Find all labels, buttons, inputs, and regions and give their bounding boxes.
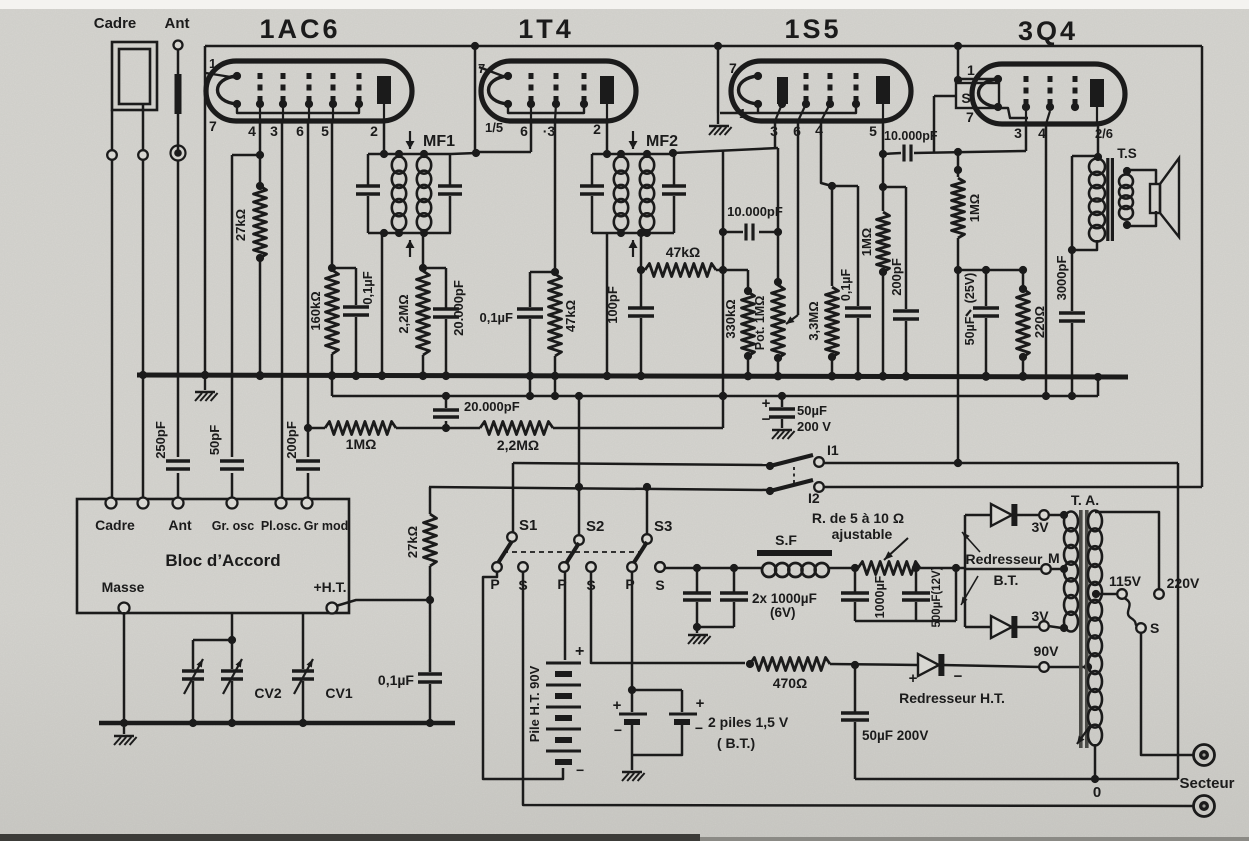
svg-text:Redresseur: Redresseur bbox=[965, 551, 1043, 567]
svg-text:7: 7 bbox=[966, 109, 974, 125]
svg-text:0,1µF: 0,1µF bbox=[479, 310, 513, 325]
svg-text:+H.T.: +H.T. bbox=[313, 579, 346, 595]
svg-text:S: S bbox=[1150, 620, 1159, 636]
svg-text:250pF: 250pF bbox=[153, 421, 168, 459]
svg-text:5: 5 bbox=[869, 123, 877, 139]
svg-text:50µF: 50µF bbox=[963, 316, 977, 345]
svg-text:+: + bbox=[762, 395, 771, 412]
svg-text:47kΩ: 47kΩ bbox=[563, 300, 578, 332]
svg-text:S: S bbox=[961, 90, 970, 106]
svg-text:200pF: 200pF bbox=[284, 421, 299, 459]
svg-text:0,1µF: 0,1µF bbox=[839, 269, 853, 302]
svg-text:+: + bbox=[909, 670, 918, 687]
svg-text:2: 2 bbox=[593, 121, 601, 137]
svg-text:ajustable: ajustable bbox=[832, 526, 893, 542]
svg-text:+: + bbox=[575, 643, 584, 660]
svg-text:Cadre: Cadre bbox=[94, 15, 137, 32]
svg-text:1: 1 bbox=[739, 106, 746, 121]
svg-text:470Ω: 470Ω bbox=[773, 675, 808, 691]
svg-text:0,1µF: 0,1µF bbox=[378, 672, 415, 688]
svg-text:6: 6 bbox=[296, 123, 304, 139]
svg-text:I1: I1 bbox=[827, 442, 839, 458]
svg-text:27kΩ: 27kΩ bbox=[233, 209, 248, 241]
svg-text:100pF: 100pF bbox=[605, 286, 620, 324]
svg-text:1000µF: 1000µF bbox=[873, 575, 887, 618]
svg-text:S: S bbox=[655, 577, 664, 593]
svg-text:S3: S3 bbox=[654, 518, 672, 535]
svg-text:CV1: CV1 bbox=[325, 685, 352, 701]
svg-text:3V: 3V bbox=[1031, 519, 1049, 535]
svg-text:S.F: S.F bbox=[775, 532, 797, 548]
svg-text:160kΩ: 160kΩ bbox=[308, 291, 323, 330]
svg-text:Ant: Ant bbox=[168, 517, 192, 533]
svg-text:20.000pF: 20.000pF bbox=[464, 399, 520, 414]
svg-text:1: 1 bbox=[967, 62, 975, 78]
svg-text:Gr. osc: Gr. osc bbox=[212, 519, 254, 533]
svg-text:3Q4: 3Q4 bbox=[1018, 16, 1078, 46]
svg-text:−: − bbox=[614, 722, 622, 738]
svg-text:50µF: 50µF bbox=[797, 403, 827, 418]
svg-text:3000pF: 3000pF bbox=[1054, 256, 1069, 301]
svg-text:2,2MΩ: 2,2MΩ bbox=[396, 294, 411, 333]
svg-text:·3: ·3 bbox=[543, 123, 556, 139]
svg-text:2 piles 1,5 V: 2 piles 1,5 V bbox=[708, 714, 789, 730]
svg-text:(6V): (6V) bbox=[770, 605, 796, 620]
svg-text:−: − bbox=[762, 411, 771, 428]
svg-text:Pile H.T. 90V: Pile H.T. 90V bbox=[527, 665, 542, 742]
svg-text:90V: 90V bbox=[1034, 643, 1060, 659]
svg-text:0,1µF: 0,1µF bbox=[360, 271, 375, 305]
svg-text:200pF: 200pF bbox=[889, 258, 904, 296]
svg-text:P: P bbox=[490, 576, 499, 592]
svg-text:7: 7 bbox=[209, 118, 217, 134]
svg-text:T.S: T.S bbox=[1117, 146, 1137, 161]
svg-text:3V: 3V bbox=[1031, 608, 1049, 624]
svg-text:Masse: Masse bbox=[102, 579, 145, 595]
svg-text:20.000pF: 20.000pF bbox=[451, 280, 466, 336]
svg-text:Ant: Ant bbox=[165, 15, 190, 32]
svg-text:4: 4 bbox=[248, 123, 256, 139]
svg-text:3,3MΩ: 3,3MΩ bbox=[806, 301, 821, 340]
svg-text:1MΩ: 1MΩ bbox=[859, 228, 874, 256]
svg-text:115V: 115V bbox=[1109, 573, 1142, 589]
svg-text:10.000pF: 10.000pF bbox=[727, 204, 783, 219]
svg-text:0: 0 bbox=[1093, 784, 1101, 801]
svg-text:+: + bbox=[696, 695, 705, 712]
svg-text:2x 1000µF: 2x 1000µF bbox=[752, 591, 817, 606]
svg-text:3: 3 bbox=[1014, 125, 1022, 141]
svg-text:MF1: MF1 bbox=[423, 133, 455, 150]
svg-text:220V: 220V bbox=[1167, 575, 1200, 591]
svg-text:5: 5 bbox=[321, 123, 329, 139]
svg-text:1/5: 1/5 bbox=[485, 120, 503, 135]
svg-text:R. de 5 à 10 Ω: R. de 5 à 10 Ω bbox=[812, 510, 904, 526]
svg-text:P: P bbox=[625, 576, 634, 592]
svg-text:7: 7 bbox=[478, 61, 485, 76]
svg-text:I2: I2 bbox=[808, 490, 820, 506]
svg-text:Bloc d’Accord: Bloc d’Accord bbox=[165, 551, 280, 570]
svg-text:2: 2 bbox=[370, 123, 378, 139]
svg-text:T. A.: T. A. bbox=[1071, 492, 1099, 508]
svg-text:1MΩ: 1MΩ bbox=[346, 436, 377, 452]
svg-text:MF2: MF2 bbox=[646, 133, 678, 150]
svg-text:500µF(12V): 500µF(12V) bbox=[931, 566, 943, 627]
svg-text:1T4: 1T4 bbox=[518, 14, 574, 44]
svg-text:3: 3 bbox=[270, 123, 278, 139]
svg-text:1AC6: 1AC6 bbox=[259, 14, 340, 44]
svg-text:50pF: 50pF bbox=[207, 425, 222, 455]
svg-text:−: − bbox=[576, 762, 584, 778]
svg-text:B.T.: B.T. bbox=[994, 572, 1019, 588]
svg-text:50µF 200V: 50µF 200V bbox=[862, 728, 928, 743]
svg-text:CV2: CV2 bbox=[254, 685, 281, 701]
svg-text:330kΩ: 330kΩ bbox=[723, 299, 738, 338]
svg-text:+: + bbox=[613, 697, 622, 714]
svg-text:M: M bbox=[1048, 550, 1060, 566]
svg-text:(25V): (25V) bbox=[963, 273, 977, 304]
svg-text:27kΩ: 27kΩ bbox=[405, 526, 420, 558]
svg-text:2,2MΩ: 2,2MΩ bbox=[497, 437, 539, 453]
svg-text:10.000pF: 10.000pF bbox=[884, 129, 938, 143]
svg-text:−: − bbox=[954, 668, 963, 685]
svg-text:( B.T.): ( B.T.) bbox=[717, 735, 755, 751]
svg-text:Secteur: Secteur bbox=[1179, 775, 1234, 792]
svg-text:1MΩ: 1MΩ bbox=[967, 194, 982, 222]
svg-text:Gr mod: Gr mod bbox=[304, 519, 348, 533]
svg-text:6: 6 bbox=[520, 123, 528, 139]
svg-text:Redresseur H.T.: Redresseur H.T. bbox=[899, 690, 1005, 706]
svg-text:7: 7 bbox=[729, 60, 737, 76]
svg-text:S2: S2 bbox=[586, 518, 604, 535]
svg-text:47kΩ: 47kΩ bbox=[666, 244, 701, 260]
svg-text:1: 1 bbox=[209, 56, 216, 71]
svg-text:Pl.osc.: Pl.osc. bbox=[261, 519, 301, 533]
svg-text:1S5: 1S5 bbox=[784, 14, 841, 44]
svg-text:−: − bbox=[695, 720, 703, 736]
svg-text:Cadre: Cadre bbox=[95, 517, 135, 533]
svg-text:S1: S1 bbox=[519, 517, 537, 534]
svg-text:200 V: 200 V bbox=[797, 419, 831, 434]
